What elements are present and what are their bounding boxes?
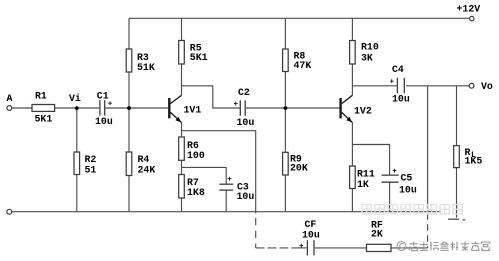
svg-text:R10: R10	[361, 42, 379, 53]
svg-text:1K8: 1K8	[187, 187, 205, 198]
svg-text:100: 100	[187, 150, 205, 161]
svg-text:47K: 47K	[294, 60, 312, 71]
svg-text:Vi: Vi	[69, 93, 81, 104]
svg-text:2K: 2K	[371, 228, 383, 239]
svg-text:5K1: 5K1	[35, 113, 53, 124]
svg-text:51K: 51K	[137, 62, 155, 73]
svg-text:+: +	[227, 176, 232, 184]
svg-text:C5: C5	[401, 173, 413, 184]
svg-text:1K5: 1K5	[465, 156, 483, 167]
svg-text:Vo: Vo	[481, 81, 493, 92]
svg-text:51: 51	[85, 164, 97, 175]
svg-text:R4: R4	[138, 154, 150, 165]
svg-text:R1: R1	[35, 91, 47, 102]
svg-text:10u: 10u	[399, 185, 417, 196]
svg-text:3K: 3K	[361, 52, 373, 63]
svg-text:+: +	[299, 243, 304, 251]
svg-text:+: +	[392, 168, 397, 176]
svg-text:C2: C2	[238, 87, 250, 98]
svg-text:24K: 24K	[138, 164, 156, 175]
svg-text:CF: CF	[305, 219, 317, 230]
svg-text:20K: 20K	[290, 163, 308, 174]
svg-text:+: +	[390, 78, 395, 86]
svg-text:+: +	[108, 100, 113, 108]
svg-text:5K1: 5K1	[190, 52, 208, 63]
svg-text:10u: 10u	[95, 116, 113, 127]
svg-text:1V1: 1V1	[184, 105, 202, 116]
svg-text:1V2: 1V2	[354, 106, 372, 117]
svg-text:+12V: +12V	[457, 3, 481, 14]
svg-text:10u: 10u	[392, 93, 410, 104]
svg-text:10u: 10u	[237, 191, 255, 202]
svg-text:10u: 10u	[237, 117, 255, 128]
svg-text:10u: 10u	[302, 229, 320, 240]
svg-text:C4: C4	[392, 64, 404, 75]
svg-text:+: +	[234, 101, 239, 109]
svg-text:1K: 1K	[357, 179, 369, 190]
svg-text:A: A	[7, 93, 13, 104]
